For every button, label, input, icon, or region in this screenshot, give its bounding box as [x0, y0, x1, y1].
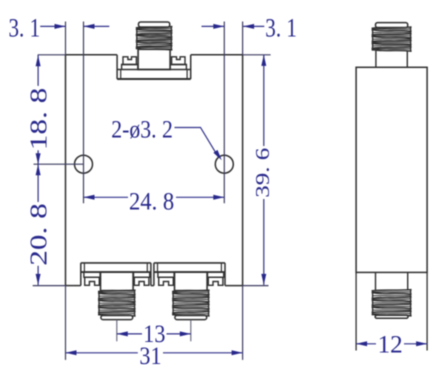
svg-text:18. 8: 18. 8: [26, 88, 52, 151]
svg-text:3. 1: 3. 1: [9, 14, 41, 43]
svg-text:20. 8: 20. 8: [26, 203, 52, 266]
svg-text:31: 31: [139, 343, 161, 365]
svg-text:24. 8: 24. 8: [129, 186, 174, 215]
svg-text:39. 6: 39. 6: [252, 148, 274, 198]
svg-text:3. 1: 3. 1: [265, 14, 297, 43]
svg-text:12: 12: [378, 329, 403, 358]
svg-text:2-ø3. 2: 2-ø3. 2: [111, 117, 173, 144]
